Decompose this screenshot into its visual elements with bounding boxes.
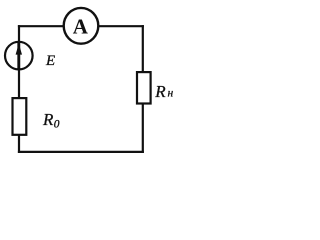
ammeter A — [64, 8, 99, 44]
svg-text:R: R — [154, 82, 166, 101]
resistor R0 — [13, 98, 27, 135]
wire left rail (top-left corner down through source E to resistor R0) — [18, 25, 20, 153]
wire right rail (top-right corner down through resistor Rn to bottom-right corner) — [142, 25, 144, 153]
label R0 — [42, 110, 60, 130]
svg-text:R: R — [42, 110, 54, 129]
svg-text:0: 0 — [54, 118, 60, 130]
resistor Rn — [137, 72, 151, 103]
label E — [45, 53, 55, 69]
source E — [5, 42, 33, 71]
svg-text:A: A — [73, 14, 89, 38]
wire bottom (bottom-left corner to bottom-right corner) — [18, 151, 144, 153]
svg-text:н: н — [168, 88, 174, 100]
wire top (from top-left corner through ammeter to top-right corner) — [18, 25, 144, 27]
label Rn — [154, 82, 173, 101]
svg-text:E: E — [45, 53, 55, 69]
